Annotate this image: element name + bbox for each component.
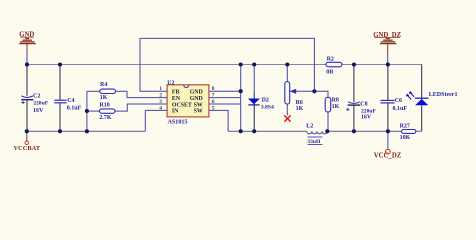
svg-text:1K: 1K (296, 106, 304, 112)
svg-text:4: 4 (159, 105, 162, 111)
svg-text:0.1uF: 0.1uF (67, 106, 82, 112)
svg-text:LEDSteer1: LEDSteer1 (429, 92, 458, 98)
svg-text:R4: R4 (100, 82, 107, 88)
svg-text:5: 5 (212, 105, 215, 111)
svg-text:R27: R27 (400, 124, 410, 130)
svg-text:R10: R10 (99, 102, 109, 108)
svg-text:SW: SW (194, 109, 203, 115)
svg-text:VCC_DZ: VCC_DZ (374, 152, 402, 159)
svg-text:VCCBAT: VCCBAT (14, 145, 41, 152)
svg-text:SW: SW (194, 102, 203, 108)
svg-text:U2: U2 (167, 80, 174, 86)
svg-text:16V: 16V (33, 108, 44, 114)
svg-text:AS1015: AS1015 (168, 119, 188, 125)
svg-text:8: 8 (212, 86, 215, 92)
svg-text:C2: C2 (33, 93, 40, 99)
svg-text:2: 2 (159, 93, 162, 99)
svg-text:GND: GND (190, 90, 203, 96)
svg-text:C6: C6 (395, 98, 402, 104)
svg-text:D2: D2 (262, 98, 269, 104)
svg-text:EN: EN (172, 96, 181, 102)
svg-text:3: 3 (159, 99, 162, 105)
svg-text:220uF: 220uF (33, 100, 49, 106)
svg-text:1: 1 (159, 86, 162, 92)
svg-text:7: 7 (212, 93, 215, 99)
svg-text:R8: R8 (332, 97, 339, 103)
svg-text:IN: IN (172, 109, 179, 115)
svg-text:1K: 1K (100, 95, 108, 101)
svg-text:1K: 1K (332, 104, 340, 110)
svg-text:2.7K: 2.7K (99, 115, 112, 121)
svg-text:GND_DZ: GND_DZ (373, 32, 401, 39)
svg-text:3.8S4: 3.8S4 (261, 105, 274, 111)
svg-text:L2: L2 (306, 124, 313, 130)
svg-text:OCSET: OCSET (172, 102, 192, 108)
svg-text:16V: 16V (361, 114, 372, 120)
svg-text:GND: GND (190, 96, 203, 102)
svg-text:FB: FB (172, 90, 180, 96)
svg-text:6: 6 (212, 99, 215, 105)
svg-text:C8: C8 (360, 102, 367, 108)
svg-text:C4: C4 (67, 98, 74, 104)
svg-text:10K: 10K (400, 135, 411, 141)
svg-text:0.1uF: 0.1uF (393, 106, 408, 112)
svg-text:R2: R2 (327, 56, 334, 62)
svg-text:0R: 0R (326, 69, 334, 75)
